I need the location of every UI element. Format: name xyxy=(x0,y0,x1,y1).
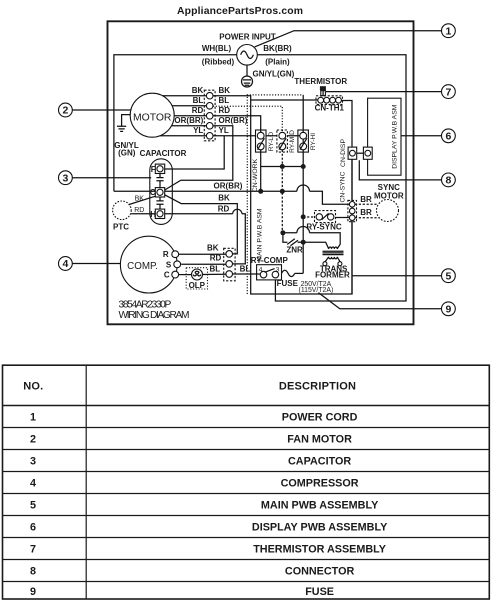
svg-text:RD: RD xyxy=(218,205,230,214)
callout 9 leader xyxy=(318,293,442,309)
sync motor circle xyxy=(377,200,399,222)
capacitor plates F-C xyxy=(156,174,163,188)
wire CN-DISP link xyxy=(357,152,364,154)
wire BK(BR) from AC source to right loop xyxy=(257,55,406,301)
svg-text:FUSE: FUSE xyxy=(305,586,334,598)
table row separators xyxy=(3,428,490,582)
svg-text:ZNR: ZNR xyxy=(286,246,303,255)
connector CN-DISP left half xyxy=(348,147,357,159)
svg-text:YL: YL xyxy=(219,126,229,135)
svg-text:RD: RD xyxy=(210,254,222,263)
transformer feed line with hop xyxy=(283,227,340,249)
callout 9 circle FUSE xyxy=(442,302,456,316)
power input AC source circle xyxy=(237,45,258,66)
svg-text:4: 4 xyxy=(259,267,263,274)
svg-text:CONNECTOR: CONNECTOR xyxy=(285,565,355,577)
wire OLP to connector BL xyxy=(186,273,226,275)
fuse symbol xyxy=(282,270,295,276)
svg-text:CN-WORK: CN-WORK xyxy=(252,158,259,192)
wire compressor R to connector xyxy=(179,253,226,255)
callout 4 leader xyxy=(71,263,121,265)
OLP protector circle xyxy=(192,269,203,280)
svg-text:R: R xyxy=(163,250,169,259)
motor ground wire xyxy=(122,115,131,126)
relay common bus A xyxy=(261,166,304,168)
junction node RY-MID chain / bus A xyxy=(280,164,285,169)
callout 7 leader xyxy=(326,91,443,93)
OLP inner contact xyxy=(193,271,200,276)
svg-text:OR(BR): OR(BR) xyxy=(219,116,248,125)
svg-text:9: 9 xyxy=(445,304,451,316)
CN-COMP pin BK xyxy=(226,251,233,258)
capacitor terminal F xyxy=(155,164,164,173)
motor lead RD xyxy=(174,115,206,117)
motor lead BL xyxy=(172,105,206,107)
svg-text:6: 6 xyxy=(30,521,36,533)
svg-text:RY-HI: RY-HI xyxy=(310,133,317,150)
wire CN-SYNC rail down to PWB bottom xyxy=(351,159,353,294)
junction node RY-HI chain / bus A xyxy=(301,164,306,169)
ZNR varistor symbol xyxy=(287,239,298,246)
CN-MOTOR pin 5 xyxy=(206,133,213,140)
svg-text:BK: BK xyxy=(135,196,145,203)
svg-text:C: C xyxy=(164,271,170,280)
wire RD PTC to capacitor H xyxy=(131,213,155,215)
callout 3 circle CAPACITOR xyxy=(59,171,73,185)
CN-SYNC pins xyxy=(349,202,355,221)
svg-text:RY-SYNC: RY-SYNC xyxy=(306,223,341,232)
svg-text:NO.: NO. xyxy=(23,381,43,393)
svg-text:S: S xyxy=(166,260,172,269)
junction node RY-MID chain / neutral bus xyxy=(280,189,285,194)
svg-text:WH(BL): WH(BL) xyxy=(202,44,232,53)
svg-text:FUSE: FUSE xyxy=(277,279,299,288)
wire compressor C to OLP xyxy=(179,274,187,276)
relay RY-COMP box xyxy=(257,265,282,280)
svg-text:CN-DISP: CN-DISP xyxy=(340,139,347,167)
RY-MID contacts and switch xyxy=(279,130,286,152)
OLP dotted box xyxy=(186,268,207,289)
compressor circle xyxy=(120,236,177,293)
table outer border xyxy=(3,365,490,599)
svg-text:1: 1 xyxy=(30,411,36,423)
motor lead YL xyxy=(160,135,207,137)
PTC circle xyxy=(113,201,132,220)
connector CN-MOTOR dashed box xyxy=(204,90,215,141)
motor lead OR(BR) xyxy=(172,125,207,127)
fan motor circle M1 xyxy=(130,93,174,137)
svg-text:7: 7 xyxy=(445,86,451,98)
svg-text:(115V/T2A): (115V/T2A) xyxy=(299,287,334,294)
compressor terminal R xyxy=(172,251,179,258)
wire compressor S to connector xyxy=(181,263,226,265)
svg-text:CAPACITOR: CAPACITOR xyxy=(288,455,351,467)
svg-text:GN/YL(GN): GN/YL(GN) xyxy=(253,70,295,79)
svg-text:RY-LO: RY-LO xyxy=(268,132,275,151)
wire CN-TH1 pin1 to PWB left rail xyxy=(251,99,318,101)
capacitor body outline xyxy=(150,159,173,225)
svg-text:FAN MOTOR: FAN MOTOR xyxy=(287,433,352,445)
svg-text:2: 2 xyxy=(30,433,36,445)
svg-text:RD: RD xyxy=(134,207,144,214)
wire WH(BL) from AC source to left loop xyxy=(114,55,237,192)
svg-text:3: 3 xyxy=(30,455,36,467)
svg-text:C: C xyxy=(150,188,156,197)
capacitor plates C-H xyxy=(156,197,163,209)
callout 8 leader xyxy=(359,160,443,180)
svg-text:DISPLAY PWB ASSEMBLY: DISPLAY PWB ASSEMBLY xyxy=(252,521,388,533)
junction node RY-LO / neutral bus xyxy=(258,189,263,194)
motor lead BK xyxy=(163,95,207,97)
svg-text:OR(BR): OR(BR) xyxy=(174,116,203,125)
fuse output line xyxy=(295,272,304,274)
RY-HI contacts and switch xyxy=(298,130,307,152)
svg-text:COMP.: COMP. xyxy=(127,261,158,272)
connector CN-TH1 dashed box xyxy=(316,96,343,105)
dashed chain RY-MID bottom down to transformer feed xyxy=(281,150,283,233)
svg-text:POWER INPUT: POWER INPUT xyxy=(219,32,276,41)
transformer terminal right xyxy=(338,262,342,266)
wire BL motor to RY-MID (dotted) xyxy=(213,106,282,132)
svg-text:3: 3 xyxy=(62,172,68,184)
callout 1 circle POWER CORD xyxy=(442,24,456,38)
wire RD capacitor H to compressor S with hop xyxy=(165,209,246,264)
capacitor terminal C xyxy=(155,188,164,197)
compressor terminal C xyxy=(172,271,179,278)
svg-text:9: 9 xyxy=(30,586,36,598)
svg-text:PTC: PTC xyxy=(113,222,129,231)
display PWB box xyxy=(368,98,401,175)
transformer secondary leads xyxy=(325,257,340,262)
wire RY-HI bottom chain down to fuse line xyxy=(302,95,304,274)
CN-COMP pin BL xyxy=(226,271,233,278)
callout 1 leader xyxy=(255,31,443,47)
relay RY-HI box xyxy=(298,130,309,152)
svg-text:4: 4 xyxy=(30,477,36,489)
svg-text:BK: BK xyxy=(218,194,230,203)
svg-text:YL: YL xyxy=(193,126,203,135)
svg-text:1: 1 xyxy=(445,25,451,37)
wire RY-LO bottom to neutral bus xyxy=(260,150,262,192)
junction node ZNR / transformer left xyxy=(301,240,306,245)
wire RD motor to RY-LO xyxy=(213,116,261,133)
CN-MOTOR pin 3 xyxy=(206,113,213,120)
callout 2 leader xyxy=(71,109,132,111)
ground stub below AC source xyxy=(246,65,248,76)
parts table xyxy=(3,365,490,599)
callout 3 leader xyxy=(71,177,151,179)
svg-text:5: 5 xyxy=(30,499,36,511)
svg-text:8: 8 xyxy=(445,175,451,187)
transformer terminal left xyxy=(323,262,327,266)
wire OR(BR) motor to capacitor C xyxy=(165,126,233,190)
svg-text:BK(BR): BK(BR) xyxy=(263,44,292,53)
capacitor terminal H xyxy=(155,209,164,218)
wire to transformer primary left xyxy=(303,242,329,249)
compressor terminal S xyxy=(174,261,181,268)
table header separator xyxy=(3,405,490,407)
wire YL branch to capacitor F xyxy=(165,136,224,169)
callout 8 circle CONNECTOR xyxy=(442,173,456,187)
relay RY-LO box xyxy=(256,130,267,152)
junction node transformer feed xyxy=(280,230,285,235)
svg-text:7: 7 xyxy=(30,543,36,555)
svg-text:AppliancePartsPros.com: AppliancePartsPros.com xyxy=(177,6,303,17)
callout 4 circle COMPRESSOR xyxy=(59,257,73,271)
svg-text:6: 6 xyxy=(445,131,451,143)
CN-TH1 pins xyxy=(318,97,342,103)
outer frame of wiring diagram xyxy=(108,21,414,324)
svg-text:FORMER: FORMER xyxy=(315,271,350,280)
CN-MOTOR pin 4 xyxy=(206,123,213,130)
connector CN-COMP dashed box xyxy=(224,248,235,280)
svg-text:BL: BL xyxy=(193,96,204,105)
svg-text:CN-SYNC: CN-SYNC xyxy=(340,171,347,202)
svg-text:BL: BL xyxy=(240,265,251,274)
relay RY-MID box (dashed) xyxy=(277,130,288,152)
thermistor TH1 symbol xyxy=(320,86,326,95)
wire YL motor to RY-HI xyxy=(213,135,300,137)
svg-text:MOTOR: MOTOR xyxy=(133,113,172,124)
callout 6 circle DISPLAY PWB ASSEMBLY xyxy=(442,129,456,143)
svg-text:BR: BR xyxy=(360,208,372,217)
callout 2 circle FAN MOTOR xyxy=(59,103,73,117)
transformer secondary winding xyxy=(329,257,338,259)
svg-text:DESCRIPTION: DESCRIPTION xyxy=(279,381,356,393)
callout 5 circle MAIN PWB ASSEMBLY xyxy=(442,269,456,283)
svg-text:3: 3 xyxy=(276,266,280,273)
svg-text:BK: BK xyxy=(207,243,219,252)
RY-COMP contacts and switch xyxy=(257,266,280,278)
svg-text:RD: RD xyxy=(219,106,231,115)
relay RY-SYNC box (dashed) xyxy=(315,211,336,223)
wire CN-TH1 pin4 to CN-DISP xyxy=(342,101,353,148)
wire BK PTC to capacitor C xyxy=(129,196,156,204)
svg-text:(Ribbed): (Ribbed) xyxy=(202,58,235,67)
transformer core xyxy=(323,251,344,254)
svg-text:MAIN P.W.B ASM: MAIN P.W.B ASM xyxy=(257,208,264,261)
main PWB dotted boundary (left and top edges) xyxy=(247,95,303,294)
svg-text:BL: BL xyxy=(219,96,230,105)
svg-text:5: 5 xyxy=(445,270,451,282)
callout 6 leader xyxy=(401,135,443,137)
wire RY-SYNC left (dashed) xyxy=(303,216,314,218)
svg-text:4: 4 xyxy=(62,258,68,270)
svg-text:RY-MID: RY-MID xyxy=(289,130,296,153)
svg-text:OLP: OLP xyxy=(189,281,206,290)
svg-text:RD: RD xyxy=(192,106,204,115)
svg-text:CAPACITOR: CAPACITOR xyxy=(140,149,187,158)
CN-COMP pin RD xyxy=(226,261,233,268)
svg-text:BL: BL xyxy=(209,265,220,274)
svg-text:3854AR2330P: 3854AR2330P xyxy=(119,300,172,311)
svg-text:F: F xyxy=(151,165,156,174)
RY-SYNC contacts and switch xyxy=(316,213,334,220)
wire BK motor to main PWB xyxy=(213,96,352,294)
wire BR CN-SYNC lower to sync motor (dashed) xyxy=(355,217,379,219)
motor ground symbol xyxy=(117,126,126,131)
labels motor connector right column xyxy=(219,86,248,135)
wire BK capacitor C to compressor R xyxy=(165,195,238,254)
transformer T1 xyxy=(323,247,344,266)
labels motor connector left column xyxy=(174,86,203,135)
svg-text:POWER CORD: POWER CORD xyxy=(282,411,358,423)
table column divider xyxy=(85,365,87,599)
svg-text:BR: BR xyxy=(360,195,372,204)
sine symbol inside AC source xyxy=(241,51,254,59)
svg-text:MAIN PWB ASSEMBLY: MAIN PWB ASSEMBLY xyxy=(261,499,379,511)
svg-text:H: H xyxy=(150,210,156,219)
CN-MOTOR pin 1 xyxy=(206,92,213,99)
svg-text:(GN): (GN) xyxy=(118,149,136,158)
junction node RY-SYNC tap xyxy=(301,214,306,219)
svg-text:BK: BK xyxy=(192,86,204,95)
svg-text:OR(BR): OR(BR) xyxy=(214,181,243,190)
CN-MOTOR pin 2 xyxy=(206,103,213,110)
svg-text:THERMISTOR ASSEMBLY: THERMISTOR ASSEMBLY xyxy=(253,543,387,555)
svg-text:8: 8 xyxy=(30,565,36,577)
svg-text:2: 2 xyxy=(62,105,68,117)
ZNR branch line xyxy=(283,233,303,242)
wire RY-SYNC right to CN-SYNC xyxy=(332,217,349,219)
connector CN-DISP right half xyxy=(363,147,372,159)
neutral bus from capacitor C to CN-SYNC with hop xyxy=(114,185,350,204)
svg-text:WIRING DIAGRAM: WIRING DIAGRAM xyxy=(119,310,190,321)
thermistor lead xyxy=(322,91,324,97)
svg-text:(Plain): (Plain) xyxy=(265,58,290,67)
svg-text:COMPRESSOR: COMPRESSOR xyxy=(281,477,359,489)
transformer primary winding xyxy=(329,247,338,249)
wire BR CN-SYNC to sync motor (dashed) xyxy=(355,203,378,205)
svg-text:DISPLAY P.W.B ASM: DISPLAY P.W.B ASM xyxy=(392,104,399,169)
RY-LO contacts and switch xyxy=(257,130,264,152)
svg-text:CN-TH1: CN-TH1 xyxy=(315,104,345,113)
connector CN-SYNC dashed box xyxy=(348,200,357,221)
wire BL connector to RY-COMP xyxy=(232,273,256,275)
svg-text:THERMISTOR: THERMISTOR xyxy=(294,77,347,86)
svg-text:MOTOR: MOTOR xyxy=(374,191,404,200)
svg-text:BK: BK xyxy=(219,86,231,95)
callout 7 circle THERMISTOR ASSEMBLY xyxy=(442,85,456,99)
earth ground symbol in circle xyxy=(242,76,253,87)
callout 5 leader xyxy=(352,275,443,277)
